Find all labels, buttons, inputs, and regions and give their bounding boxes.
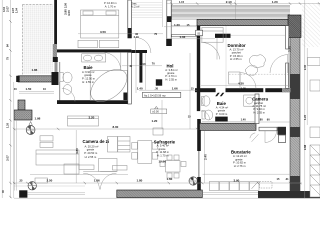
- svg-text:gresie: gresie: [84, 73, 92, 77]
- svg-text:Dormitor: Dormitor: [228, 43, 246, 48]
- svg-text:1.60: 1.60: [167, 177, 173, 181]
- svg-text:2.97: 2.97: [11, 7, 15, 13]
- wall: bottom hatched wall H3: [117, 190, 203, 198]
- window band kitchen bottom: [202, 193, 258, 195]
- vertical: top entry: [234, 0, 236, 19]
- door D4b: Dormitor door at wall W6: [240, 73, 256, 89]
- neighbour diagonal hatch top-right corner: [302, 3, 320, 47]
- svg-text:1.30: 1.30: [241, 87, 247, 91]
- svg-text:H: 2.55 m: H: 2.55 m: [85, 155, 97, 159]
- svg-text:3.50: 3.50: [100, 30, 106, 34]
- svg-text:1.20: 1.20: [303, 114, 307, 120]
- svg-text:1.80: 1.80: [137, 179, 143, 183]
- furniture: kitchen counter: [209, 182, 272, 191]
- WC: [60, 73, 63, 82]
- door D3: apartment entry door: [201, 38, 220, 62]
- svg-text:3.07: 3.07: [6, 155, 10, 161]
- inner dim over Ap box: [139, 89, 197, 91]
- bathtub: [90, 71, 127, 101]
- svg-text:2.10: 2.10: [140, 62, 146, 66]
- terrace dotted paving top-left: [23, 5, 54, 75]
- door D9: kitchen door leaf: [249, 132, 258, 142]
- dim line entry: [164, 26, 197, 28]
- svg-text:.21: .21: [285, 177, 289, 181]
- svg-text:±0.00: ±0.00: [152, 110, 159, 114]
- svg-text:3.20: 3.20: [89, 115, 95, 119]
- svg-text:1.20: 1.20: [272, 0, 278, 4]
- svg-text:1.00: 1.00: [180, 35, 186, 39]
- wall P1: bedroom/corridor partition x128: [128, 0, 132, 38]
- svg-text:Ap.1 S=103.56 mp: Ap.1 S=103.56 mp: [144, 93, 166, 97]
- vertical: living room 4.80: [75, 130, 77, 183]
- wall W5: central vertical black wall x198: [197, 26, 200, 112]
- svg-text:1.66: 1.66: [172, 86, 178, 90]
- shaft dark blocks near kitchen door: [278, 127, 287, 135]
- svg-text:H: 2.55 m: H: 2.55 m: [165, 78, 177, 82]
- decking stripes top-right: [172, 5, 291, 19]
- bidet: [63, 85, 72, 95]
- terrace dashed border: [23, 5, 54, 75]
- svg-text:.30: .30: [155, 86, 159, 90]
- svg-text:Baie: Baie: [217, 101, 227, 106]
- svg-text:3.90: 3.90: [234, 179, 240, 183]
- room label: Camera de zi: [83, 139, 110, 159]
- svg-text:1.15: 1.15: [179, 0, 185, 4]
- room label: Hol: [165, 63, 178, 81]
- svg-text:P: 20.50 m: P: 20.50 m: [84, 151, 98, 155]
- wall V4: entry left wall: [167, 0, 171, 39]
- column black bottom-left: [19, 190, 27, 197]
- door D7: Baie2 door: [201, 111, 210, 120]
- level mark ±0.00: [151, 106, 167, 113]
- wall: Dormitor right thin wall: [286, 26, 289, 49]
- furniture: Dormitor blobs (plants/pouf): [245, 55, 265, 76]
- svg-text:1.04: 1.04: [15, 7, 19, 13]
- apartment label box: [142, 92, 180, 97]
- wall: Baie2/Camera partition: [255, 94, 259, 124]
- svg-text:1.50: 1.50: [26, 87, 32, 91]
- window terrace sill lines: [14, 91, 54, 190]
- svg-text:Hol: Hol: [167, 63, 174, 68]
- svg-text:Sufragerie: Sufragerie: [154, 139, 176, 144]
- furniture: Baie2: [202, 95, 255, 120]
- wall: Camera bottom thin wall: [259, 127, 277, 131]
- furniture: Sufragerie table 1: [108, 137, 158, 164]
- wall W2: left wall of top bedroom x54.5: [54, 0, 57, 44]
- room label: Sufragerie: [154, 139, 176, 163]
- small 05 box: [196, 30, 203, 35]
- wall W1: horizontal wall over Baie1 y51: [57, 49, 131, 52]
- wall W8: Baie1 bottom wall: [57, 100, 124, 104]
- svg-text:H: 2.55 m: H: 2.55 m: [230, 57, 242, 61]
- svg-text:gresie: gresie: [235, 157, 243, 161]
- room label: Dormitor: [228, 43, 246, 61]
- svg-text:4.80: 4.80: [75, 148, 79, 154]
- svg-text:H: 2.76 m: H: 2.76 m: [234, 164, 246, 168]
- furniture: Dormitor closet: [202, 28, 240, 85]
- svg-text:Camera de zi: Camera de zi: [83, 139, 110, 144]
- svg-text:1.86: 1.86: [32, 68, 38, 72]
- circle marker mid-bottom: [189, 177, 197, 185]
- furniture: bed top bedroom: [78, 10, 119, 48]
- svg-text:1.20: 1.20: [152, 119, 158, 123]
- right edge dim lines: [304, 0, 306, 198]
- room label: Baie 2: [215, 101, 228, 121]
- wall: bottom right black wall: [258, 191, 320, 198]
- door D8: Camera door: [265, 131, 277, 143]
- wall: right wall dark block 2: [290, 176, 300, 197]
- room label: Camera: [252, 97, 268, 115]
- svg-text:H: 2.55 m: H: 2.55 m: [253, 110, 265, 114]
- wall: Baie1 left thin wall: [59, 62, 61, 102]
- dimension numbers: [14, 0, 289, 183]
- dim line under W1: [122, 65, 162, 67]
- svg-text:2.07: 2.07: [6, 6, 10, 12]
- room label: Bucatarie: [231, 150, 251, 169]
- svg-text:P: 10.82 m: P: 10.82 m: [233, 161, 247, 165]
- wall: Baie1 right partition: [128, 52, 132, 104]
- wire wall: top-right exterior grey wall H1: [197, 19, 290, 25]
- top room label bedroom1: [104, 1, 117, 8]
- svg-text:Bucatarie: Bucatarie: [231, 150, 251, 155]
- svg-text:gresie: gresie: [87, 148, 95, 152]
- svg-text:H: 1.70 m: H: 1.70 m: [157, 154, 169, 158]
- svg-text:1.98: 1.98: [35, 117, 41, 121]
- inner dim: 8.00 line: [14, 128, 197, 130]
- svg-text:A: 2 m²: A: 2 m²: [131, 5, 139, 9]
- wall W3: hall closet wall: [139, 50, 142, 82]
- bottom dim line: [13, 182, 302, 184]
- svg-text:2.88: 2.88: [303, 144, 307, 150]
- svg-text:2.50: 2.50: [288, 46, 292, 52]
- sink counter: [82, 54, 106, 62]
- svg-text:12.50: 12.50: [159, 159, 167, 163]
- top dim line: [166, 3, 320, 5]
- small shaft rect below level mark: [153, 128, 163, 135]
- svg-text:P: 9.00 m: P: 9.00 m: [216, 112, 228, 116]
- dim line above 3.50 bed: [78, 33, 163, 35]
- dim 4.30 Dormitor: [201, 84, 290, 86]
- svg-text:A: 1.70 m: A: 1.70 m: [105, 4, 116, 8]
- svg-text:gresie: gresie: [158, 147, 166, 151]
- svg-text:4.30: 4.30: [238, 81, 244, 85]
- svg-text:gresie: gresie: [218, 109, 226, 113]
- svg-text:Baie: Baie: [84, 65, 94, 70]
- wall: entry north thin wall: [172, 35, 198, 37]
- furniture: Sufragerie table 2: [160, 155, 186, 178]
- vertical: hall: [144, 53, 146, 90]
- wall: terrace south hatched wall: [16, 76, 54, 82]
- svg-text:1.40: 1.40: [241, 118, 247, 122]
- svg-text:8.00: 8.00: [113, 125, 119, 129]
- tick marks: [9, 2, 320, 198]
- door D1: bedroom door: [135, 38, 151, 54]
- svg-text:2.10: 2.10: [134, 35, 140, 39]
- wall: terrace west hatched pier vertical: [18, 100, 25, 110]
- vertical: dormitor right 2.50: [287, 38, 289, 87]
- svg-text:1.86: 1.86: [94, 179, 100, 183]
- circle marker left (level symbol): [26, 122, 35, 135]
- svg-text:2.50: 2.50: [47, 179, 53, 183]
- circle marker bottom-left: [28, 182, 36, 190]
- door D2: Baie1 top door: [103, 52, 121, 70]
- wall W10: Baie2 bottom hatched wall: [200, 123, 257, 130]
- dashed line dormitor: [229, 73, 288, 75]
- svg-text:1.40: 1.40: [137, 86, 143, 90]
- svg-text:2.30: 2.30: [303, 64, 307, 70]
- left dim lines: [9, 0, 11, 198]
- furniture: Baie1: [60, 54, 133, 108]
- wall W7: entry black wall segment: [215, 34, 231, 38]
- right edge schedule boxes: [308, 58, 320, 198]
- door D5: Baie1 lower left arc: [62, 88, 75, 101]
- room label: Baie 1: [82, 65, 96, 84]
- svg-text:P: 11.68 m: P: 11.68 m: [156, 150, 170, 154]
- door D4: Dormitor door: [270, 55, 288, 74]
- rotated dimension numbers: [1, 2, 307, 193]
- dressing labels top corridor: [131, 1, 139, 8]
- wall: right wall dark block 1: [290, 74, 300, 99]
- svg-text:3.04: 3.04: [2, 6, 6, 12]
- svg-text:2.40: 2.40: [204, 154, 208, 160]
- svg-text:1.20: 1.20: [174, 23, 180, 27]
- vertical: kitchen 2.40: [203, 131, 205, 183]
- svg-text:2.10: 2.10: [226, 0, 232, 4]
- chevron marks in W6 gap: [215, 93, 224, 96]
- svg-text:2.50: 2.50: [64, 2, 68, 8]
- svg-text:H: 2.55 m: H: 2.55 m: [82, 80, 94, 84]
- column C1 black square: [156, 79, 162, 85]
- svg-text:2.55: 2.55: [216, 117, 222, 121]
- wall: right exterior hatched wall H2: [290, 38, 300, 198]
- door D6: living room french doors: [83, 171, 116, 189]
- wall: terrace west hatched pier horizontal: [14, 110, 32, 120]
- svg-text:1.20: 1.20: [6, 122, 10, 128]
- wall W6: horizontal wall under Dormitor y88-94: [195, 88, 216, 92]
- svg-text:.35: .35: [19, 179, 23, 183]
- svg-text:4.00: 4.00: [67, 10, 71, 16]
- svg-text:P: 12.50 m: P: 12.50 m: [82, 76, 96, 80]
- furniture: Camera de zi: [35, 116, 127, 183]
- window band bottom-left: [14, 186, 320, 198]
- wall: top-right corner block: [288, 15, 301, 38]
